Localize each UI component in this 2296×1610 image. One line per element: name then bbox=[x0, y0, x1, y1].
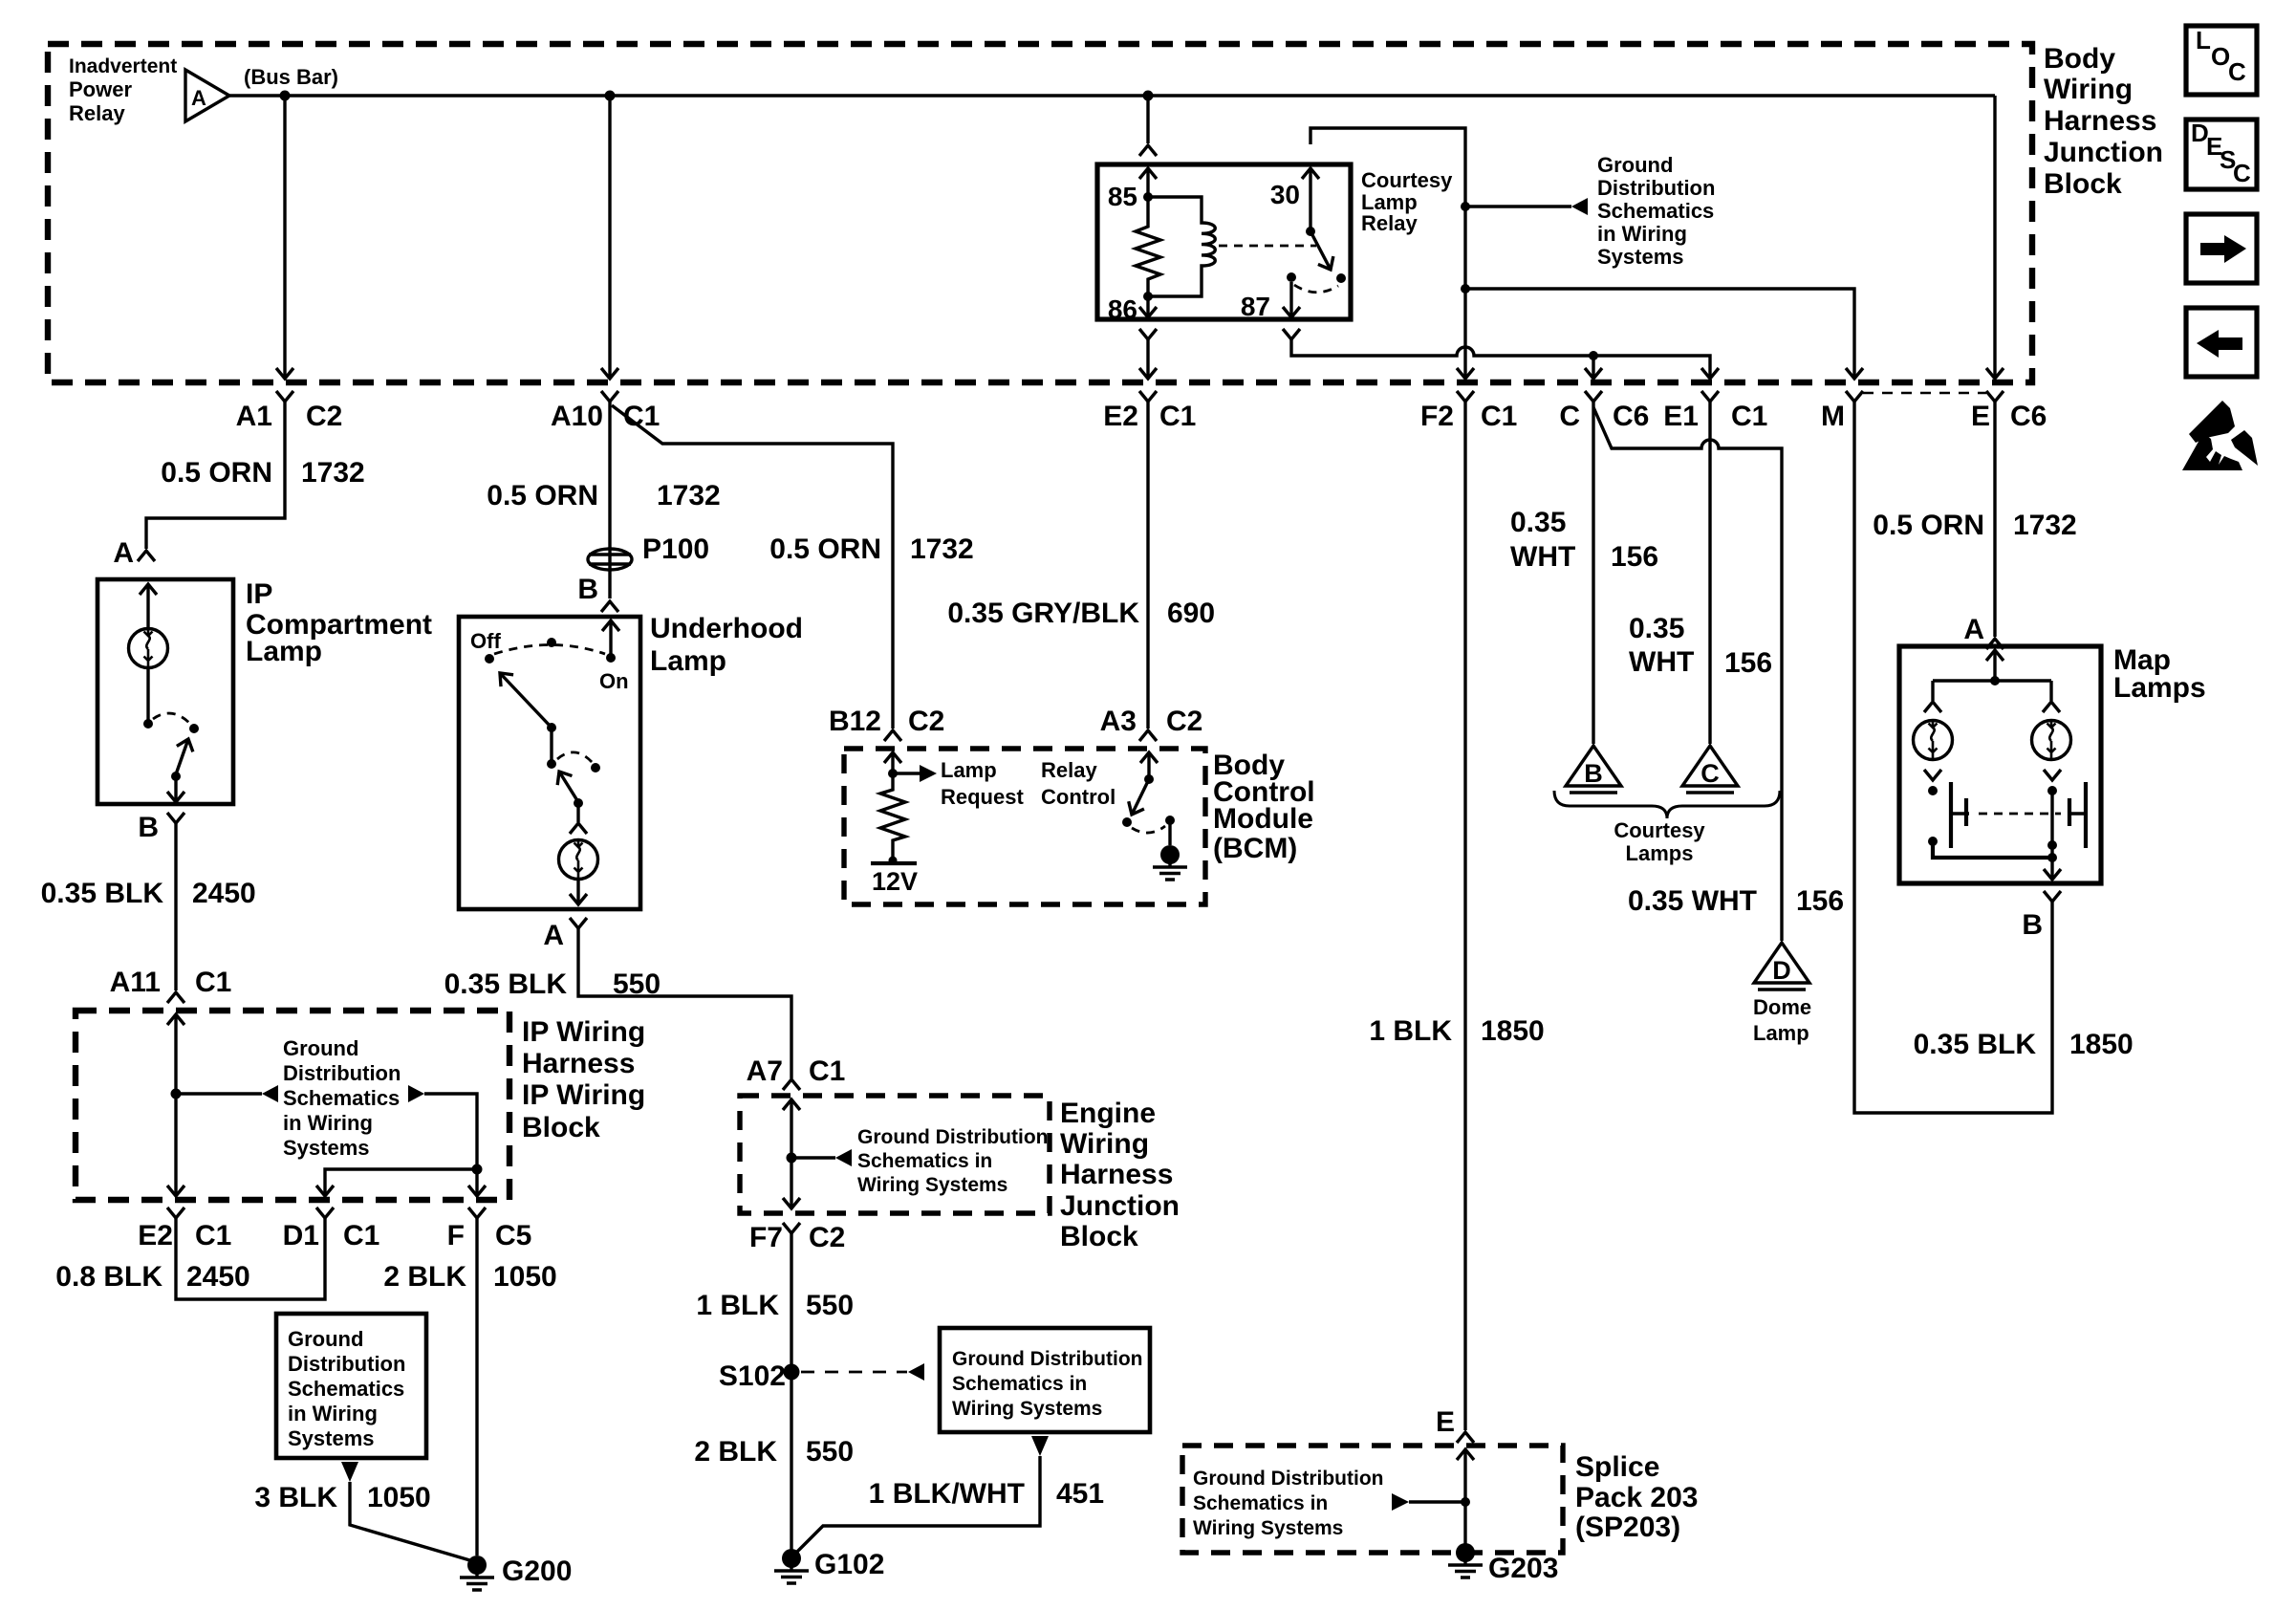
svg-text:C6: C6 bbox=[1613, 401, 1649, 432]
svg-text:A11: A11 bbox=[110, 967, 161, 998]
wire pin30 up and over to F2 drop bbox=[1310, 128, 1465, 377]
dashed connector tie M to E bbox=[1863, 392, 1986, 394]
wire 0.35 BLK 2450 bbox=[174, 823, 177, 990]
wire 1 BLK/WHT 451 bbox=[793, 1456, 1040, 1556]
svg-text:Body: Body bbox=[2044, 43, 2115, 75]
svg-text:Harness: Harness bbox=[522, 1048, 635, 1079]
svg-text:S102: S102 bbox=[719, 1360, 786, 1392]
terminal B bbox=[2044, 891, 2061, 902]
svg-text:3 BLK: 3 BLK bbox=[254, 1482, 337, 1513]
svg-text:156: 156 bbox=[1611, 541, 1658, 573]
svg-text:Splice: Splice bbox=[1575, 1451, 1659, 1483]
svg-text:A10: A10 bbox=[551, 401, 603, 432]
svg-text:G200: G200 bbox=[502, 1556, 572, 1587]
svg-text:Schematics: Schematics bbox=[288, 1377, 404, 1401]
wire switch to box edge bbox=[174, 776, 177, 802]
svg-text:Harness: Harness bbox=[1060, 1159, 1173, 1190]
wire 0.35 BLK 550 to A7 bbox=[578, 928, 791, 1078]
svg-text:Ground Distribution: Ground Distribution bbox=[1193, 1468, 1383, 1490]
ESD warning symbol bbox=[2182, 401, 2258, 470]
ground G200 bbox=[460, 1556, 494, 1590]
svg-text:Wiring Systems: Wiring Systems bbox=[857, 1174, 1007, 1196]
svg-text:Systems: Systems bbox=[1597, 245, 1684, 269]
lower throw arc bbox=[557, 752, 593, 763]
svg-text:P100: P100 bbox=[642, 533, 709, 565]
wire into splice bbox=[1457, 1449, 1474, 1460]
svg-text:Block: Block bbox=[2044, 168, 2122, 200]
wire pin 86 down to E2 bbox=[1139, 329, 1157, 339]
svg-text:0.35 BLK: 0.35 BLK bbox=[444, 968, 568, 1000]
lamp feed bbox=[602, 620, 619, 631]
wire 0.35 WHT 156 to dome lamp bbox=[1593, 407, 1782, 941]
svg-text:0.35: 0.35 bbox=[1510, 507, 1566, 538]
svg-text:Relay: Relay bbox=[69, 101, 125, 125]
wire 0.5 ORN 1732 circuit A10 down bbox=[608, 402, 611, 598]
svg-text:C2: C2 bbox=[908, 706, 944, 737]
pointer triangle bbox=[1571, 198, 1588, 215]
svg-text:Schematics: Schematics bbox=[1597, 199, 1714, 223]
pointer down from box bbox=[1031, 1436, 1049, 1456]
svg-text:Wiring Systems: Wiring Systems bbox=[1193, 1517, 1343, 1539]
svg-text:C2: C2 bbox=[809, 1222, 845, 1253]
svg-text:0.35: 0.35 bbox=[1629, 613, 1684, 644]
splice S102 bbox=[784, 1364, 800, 1381]
switch throw arc bbox=[153, 713, 190, 724]
wire busbar to E C6 bbox=[1993, 96, 1996, 377]
svg-text:IP Wiring: IP Wiring bbox=[522, 1079, 645, 1111]
svg-text:1050: 1050 bbox=[367, 1482, 431, 1513]
svg-text:12V: 12V bbox=[872, 867, 918, 896]
svg-text:Courtesy: Courtesy bbox=[1361, 168, 1453, 192]
svg-text:F: F bbox=[447, 1220, 465, 1251]
svg-text:Dome: Dome bbox=[1753, 995, 1811, 1019]
svg-text:in Wiring: in Wiring bbox=[283, 1111, 373, 1135]
ground G102 bbox=[774, 1549, 809, 1583]
svg-text:0.5 ORN: 0.5 ORN bbox=[161, 457, 272, 489]
svg-text:Module: Module bbox=[1213, 803, 1313, 835]
lamp request input bbox=[884, 752, 901, 763]
wire 3 BLK 1050 bbox=[350, 1482, 473, 1561]
svg-text:Ground Distribution: Ground Distribution bbox=[952, 1348, 1142, 1370]
svg-text:E1: E1 bbox=[1663, 401, 1699, 432]
svg-text:Relay: Relay bbox=[1041, 758, 1097, 782]
wire 1 BLK 1850 F2 to splice bbox=[1463, 402, 1466, 1430]
svg-text:1732: 1732 bbox=[301, 457, 365, 489]
svg-text:Schematics in: Schematics in bbox=[857, 1150, 992, 1172]
svg-text:Junction: Junction bbox=[2044, 137, 2163, 168]
connector M bbox=[1846, 391, 1863, 402]
svg-text:Schematics: Schematics bbox=[283, 1086, 400, 1110]
wire 2 BLK 1050 to G200 bbox=[475, 1218, 478, 1556]
svg-text:Schematics in: Schematics in bbox=[1193, 1492, 1328, 1514]
svg-text:690: 690 bbox=[1167, 598, 1215, 629]
wire 0.35 WHT 156 circuit E1 to lamp C bbox=[1708, 402, 1711, 744]
connector E/C6 bbox=[1986, 391, 2004, 402]
IP wiring harness IP wiring block (dashed box) bbox=[76, 1011, 509, 1200]
wire busbar to relay pin 85 bbox=[1146, 96, 1149, 143]
map lamps box bbox=[1899, 646, 2101, 883]
svg-text:A1: A1 bbox=[236, 401, 272, 432]
svg-text:E2: E2 bbox=[138, 1220, 173, 1251]
svg-text:Request: Request bbox=[941, 785, 1024, 809]
svg-text:(BCM): (BCM) bbox=[1213, 833, 1297, 864]
svg-text:C2: C2 bbox=[1166, 706, 1202, 737]
switch arm upper bbox=[500, 673, 552, 728]
svg-text:Schematics in: Schematics in bbox=[952, 1373, 1087, 1395]
relay resistor bbox=[1136, 197, 1160, 296]
svg-text:550: 550 bbox=[613, 968, 661, 1000]
svg-text:Off: Off bbox=[470, 629, 501, 653]
svg-text:C1: C1 bbox=[1481, 401, 1517, 432]
switch arm lower bbox=[559, 772, 578, 802]
svg-text:Block: Block bbox=[1060, 1221, 1138, 1252]
svg-text:1850: 1850 bbox=[2069, 1029, 2134, 1060]
wire 0.35 GRY/BLK 690 E2 to A3 bbox=[1146, 402, 1149, 729]
wire 0.5 ORN 1732 circuit A1 to lamp A bbox=[146, 402, 285, 549]
svg-text:in Wiring: in Wiring bbox=[288, 1402, 378, 1425]
svg-text:1732: 1732 bbox=[2013, 510, 2077, 541]
splice pack 203 (dashed box) bbox=[1182, 1446, 1563, 1553]
svg-text:B: B bbox=[138, 812, 159, 843]
BCM internal ground bbox=[1168, 820, 1171, 845]
svg-text:Junction: Junction bbox=[1060, 1190, 1180, 1222]
svg-text:87: 87 bbox=[1241, 292, 1270, 321]
svg-text:0.35 BLK: 0.35 BLK bbox=[1914, 1029, 2037, 1060]
connector F7/C2 bbox=[783, 1223, 800, 1233]
svg-text:85: 85 bbox=[1108, 182, 1137, 211]
svg-text:1 BLK: 1 BLK bbox=[696, 1290, 779, 1321]
BCM switch arm bbox=[1132, 779, 1149, 815]
switch link dashed bbox=[1979, 813, 2061, 816]
svg-text:550: 550 bbox=[806, 1436, 854, 1468]
svg-text:C: C bbox=[1559, 401, 1580, 432]
svg-text:2 BLK: 2 BLK bbox=[383, 1261, 466, 1293]
svg-text:in Wiring: in Wiring bbox=[1597, 222, 1687, 246]
pointer and wire to F exit bbox=[408, 1085, 424, 1102]
wire to bulb bbox=[576, 803, 579, 822]
svg-text:E: E bbox=[1436, 1406, 1455, 1438]
svg-text:G203: G203 bbox=[1488, 1553, 1558, 1584]
svg-text:0.35 GRY/BLK: 0.35 GRY/BLK bbox=[947, 598, 1139, 629]
svg-text:0.8 BLK: 0.8 BLK bbox=[55, 1261, 162, 1293]
svg-text:Ground: Ground bbox=[288, 1327, 363, 1351]
svg-text:1050: 1050 bbox=[493, 1261, 557, 1293]
svg-text:M: M bbox=[1821, 401, 1845, 432]
relay switch arm bbox=[1310, 231, 1331, 270]
svg-text:F2: F2 bbox=[1420, 401, 1454, 432]
svg-text:30: 30 bbox=[1270, 180, 1300, 209]
svg-text:Power: Power bbox=[69, 77, 132, 101]
svg-text:0.35 WHT: 0.35 WHT bbox=[1628, 885, 1757, 917]
ground distribution schematics box (solid) bbox=[276, 1314, 426, 1458]
connector F/C5 bbox=[468, 1207, 486, 1218]
node schematics branch bbox=[787, 1153, 797, 1164]
svg-text:L: L bbox=[2196, 26, 2211, 54]
map lamp switch right bbox=[2084, 782, 2088, 848]
wire 87 to box edge bbox=[1289, 282, 1292, 316]
switch throw arc off-on bbox=[494, 645, 605, 655]
svg-text:86: 86 bbox=[1108, 294, 1137, 324]
svg-text:A: A bbox=[113, 537, 134, 569]
svg-text:C6: C6 bbox=[2010, 401, 2047, 432]
connector E2/C1 bbox=[1139, 391, 1157, 402]
svg-text:C1: C1 bbox=[809, 1055, 845, 1087]
svg-text:Lamps: Lamps bbox=[1626, 841, 1694, 865]
wire bulb to switch bbox=[146, 667, 149, 724]
svg-text:0.5 ORN: 0.5 ORN bbox=[1873, 510, 1984, 541]
ground distribution schematics box (solid) bbox=[940, 1328, 1150, 1432]
bulb underhood bbox=[559, 840, 598, 880]
node F2/ground-distribution branch bbox=[1461, 202, 1470, 211]
relay actuation dashed link bbox=[1219, 245, 1316, 248]
svg-text:C1: C1 bbox=[195, 967, 231, 998]
svg-text:B: B bbox=[1584, 759, 1603, 788]
switch arm bbox=[176, 739, 188, 774]
svg-text:A: A bbox=[191, 86, 206, 110]
svg-text:Wiring: Wiring bbox=[2044, 74, 2133, 105]
wire A11 through block bbox=[167, 1014, 184, 1025]
connector A1/C2 bbox=[276, 391, 293, 402]
wire 0.5 ORN 1732 branch A10 to B12 bbox=[612, 405, 893, 729]
lamp feed wire bbox=[140, 584, 157, 595]
svg-text:A: A bbox=[543, 920, 564, 951]
svg-text:C1: C1 bbox=[1731, 401, 1767, 432]
connector C/C6 bbox=[1585, 391, 1602, 402]
body wiring harness junction block (dashed box) bbox=[48, 44, 2032, 382]
svg-text:(Bus Bar): (Bus Bar) bbox=[244, 65, 338, 89]
node busbar-A10 bbox=[605, 91, 616, 101]
svg-text:2450: 2450 bbox=[186, 1261, 250, 1293]
dome lamp D triangle bbox=[1754, 943, 1809, 983]
svg-text:156: 156 bbox=[1796, 885, 1844, 917]
wire 86 to box edge bbox=[1146, 296, 1149, 316]
svg-text:WHT: WHT bbox=[1629, 646, 1694, 678]
pointer down from box bbox=[341, 1462, 358, 1482]
svg-text:B12: B12 bbox=[829, 706, 881, 737]
svg-text:C1: C1 bbox=[343, 1220, 379, 1251]
wire to M bbox=[1465, 289, 1854, 377]
svg-text:Engine: Engine bbox=[1060, 1098, 1156, 1129]
svg-text:F7: F7 bbox=[749, 1222, 783, 1253]
bus bar wire bbox=[229, 94, 1995, 97]
svg-text:(SP203): (SP203) bbox=[1575, 1512, 1680, 1543]
svg-text:C2: C2 bbox=[306, 401, 342, 432]
connector D1/C1 bbox=[316, 1207, 334, 1218]
relay contact 87 bbox=[1287, 272, 1296, 282]
wire to schematics pointer left bbox=[176, 1092, 262, 1095]
svg-text:C: C bbox=[1700, 759, 1720, 788]
svg-text:Lamp: Lamp bbox=[941, 758, 997, 782]
svg-text:Systems: Systems bbox=[288, 1426, 375, 1450]
svg-text:On: On bbox=[599, 669, 629, 693]
BCM (dashed box) bbox=[844, 749, 1205, 904]
connector F2/C1 bbox=[1457, 391, 1474, 402]
terminal B bbox=[167, 813, 184, 823]
svg-text:Block: Block bbox=[522, 1112, 600, 1143]
svg-text:C1: C1 bbox=[1159, 401, 1196, 432]
courtesy lamp B triangle bbox=[1566, 746, 1621, 786]
wire 0.35 WHT 156 circuit C to lamp B bbox=[1592, 402, 1594, 744]
svg-text:IP Wiring: IP Wiring bbox=[522, 1016, 645, 1048]
left map bulb feed bbox=[1931, 681, 1934, 701]
node C branch bbox=[1589, 351, 1598, 360]
wire 0.35 BLK 1850 map lamps to M bbox=[1854, 402, 2052, 1113]
map lamp switch left bbox=[1949, 782, 1953, 848]
svg-text:Distribution: Distribution bbox=[1597, 176, 1715, 200]
connector A10/C1 bbox=[601, 391, 618, 402]
wire 0.5 ORN 1732 E C6 to map lamps bbox=[1993, 402, 1996, 637]
BCM pull-up resistor bbox=[880, 773, 905, 859]
svg-text:D1: D1 bbox=[283, 1220, 319, 1251]
svg-text:B: B bbox=[577, 574, 598, 605]
svg-text:2 BLK: 2 BLK bbox=[694, 1436, 777, 1468]
wire to D1 exit bbox=[325, 1169, 477, 1196]
courtesy lamp C triangle bbox=[1682, 746, 1738, 786]
wire pin 87 across to C and E1 bbox=[1283, 329, 1300, 339]
svg-text:C: C bbox=[2233, 159, 2251, 187]
svg-text:1850: 1850 bbox=[1481, 1015, 1545, 1047]
svg-text:Systems: Systems bbox=[283, 1136, 370, 1160]
svg-text:B: B bbox=[2022, 909, 2043, 941]
svg-text:Pack 203: Pack 203 bbox=[1575, 1482, 1698, 1513]
relay gate symbol A bbox=[185, 70, 229, 121]
svg-text:Distribution: Distribution bbox=[288, 1352, 405, 1376]
svg-text:E: E bbox=[1971, 401, 1990, 432]
svg-text:0.5 ORN: 0.5 ORN bbox=[487, 480, 598, 511]
svg-text:1732: 1732 bbox=[910, 533, 974, 565]
forward arrow box bbox=[2186, 214, 2257, 283]
node ground distribution branch bbox=[171, 1089, 182, 1099]
svg-text:Underhood: Underhood bbox=[650, 613, 803, 644]
svg-text:Lamps: Lamps bbox=[2113, 672, 2206, 704]
LOC box bbox=[2186, 26, 2257, 95]
svg-text:Relay: Relay bbox=[1361, 211, 1418, 235]
svg-text:Lamp: Lamp bbox=[650, 645, 726, 677]
svg-text:Wiring Systems: Wiring Systems bbox=[952, 1398, 1102, 1420]
wire to schematics pointer bbox=[1465, 205, 1571, 207]
svg-text:0.35 BLK: 0.35 BLK bbox=[41, 878, 164, 909]
wire busbar to A10 bbox=[608, 96, 611, 377]
svg-text:Lamp: Lamp bbox=[1753, 1021, 1809, 1045]
svg-text:1 BLK/WHT: 1 BLK/WHT bbox=[869, 1478, 1025, 1510]
engine junction block (dashed box) bbox=[740, 1096, 1050, 1213]
svg-text:A3: A3 bbox=[1100, 706, 1137, 737]
svg-text:Distribution: Distribution bbox=[283, 1061, 401, 1085]
ground side wires bbox=[1928, 837, 1938, 846]
svg-text:Ground Distribution: Ground Distribution bbox=[857, 1126, 1048, 1148]
svg-text:550: 550 bbox=[806, 1290, 854, 1321]
grommet P100 bbox=[588, 549, 632, 570]
underhood lamp box bbox=[459, 617, 640, 909]
svg-text:C1: C1 bbox=[195, 1220, 231, 1251]
svg-text:Inadvertent: Inadvertent bbox=[69, 55, 177, 77]
pin 85 bbox=[1139, 168, 1157, 179]
connector E1/C1 bbox=[1701, 391, 1719, 402]
svg-text:Wiring: Wiring bbox=[1060, 1128, 1149, 1160]
svg-text:WHT: WHT bbox=[1510, 541, 1575, 573]
svg-text:C5: C5 bbox=[495, 1220, 531, 1251]
terminal A bbox=[570, 918, 587, 928]
svg-text:C: C bbox=[2228, 57, 2246, 86]
connector E2/C1 bbox=[167, 1207, 184, 1218]
svg-text:1 BLK: 1 BLK bbox=[1369, 1015, 1452, 1047]
svg-text:E2: E2 bbox=[1103, 401, 1138, 432]
svg-text:Ground: Ground bbox=[283, 1036, 358, 1060]
brace courtesy lamps bbox=[1554, 791, 1780, 818]
wire 1 BLK 550 bbox=[790, 1233, 792, 1557]
svg-text:0.5 ORN: 0.5 ORN bbox=[769, 533, 881, 565]
wire busbar to A1 bbox=[283, 96, 286, 377]
svg-text:D: D bbox=[1772, 956, 1791, 985]
svg-text:A: A bbox=[1963, 614, 1984, 645]
svg-text:451: 451 bbox=[1056, 1478, 1104, 1510]
svg-text:A7: A7 bbox=[747, 1055, 783, 1087]
bulb IP lamp bbox=[129, 629, 168, 668]
svg-text:Harness: Harness bbox=[2044, 105, 2156, 137]
wire through block bbox=[783, 1099, 800, 1110]
back arrow box bbox=[2186, 308, 2257, 377]
node pin 86 bbox=[1143, 292, 1153, 301]
svg-text:Control: Control bbox=[1041, 785, 1116, 809]
node M branch bbox=[1461, 284, 1470, 294]
svg-text:156: 156 bbox=[1724, 647, 1772, 679]
svg-text:Courtesy: Courtesy bbox=[1614, 818, 1705, 842]
svg-text:G102: G102 bbox=[814, 1549, 884, 1580]
svg-text:2450: 2450 bbox=[192, 878, 256, 909]
IP compartment lamp box bbox=[97, 579, 233, 804]
svg-text:Ground: Ground bbox=[1597, 153, 1673, 177]
12V rail bbox=[871, 861, 917, 865]
relay coil bbox=[1148, 197, 1215, 296]
node busbar-A1 bbox=[280, 91, 291, 101]
courtesy lamp relay box bbox=[1097, 164, 1351, 319]
ground G203 bbox=[1448, 1543, 1483, 1577]
svg-text:IP: IP bbox=[246, 578, 272, 610]
feed bus bbox=[1986, 650, 2004, 661]
wire 0.8 BLK 2450 loop E2 to D1 bbox=[176, 1218, 325, 1299]
right map bulb feed bbox=[2049, 681, 2052, 701]
svg-text:Lamp: Lamp bbox=[246, 636, 322, 667]
node busbar-85 bbox=[1143, 91, 1154, 101]
DESC box bbox=[2186, 120, 2257, 189]
pointer to splice bbox=[1392, 1493, 1409, 1511]
svg-text:1732: 1732 bbox=[657, 480, 721, 511]
